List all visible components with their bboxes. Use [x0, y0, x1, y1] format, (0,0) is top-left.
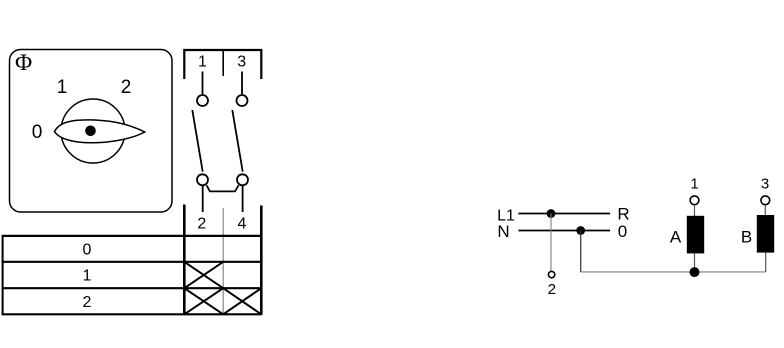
wire N down	[580, 231, 582, 272]
wire lead terminal 1	[202, 72, 204, 95]
bridge link contacts 2-4	[207, 185, 239, 191]
svg-text:0: 0	[32, 122, 43, 143]
svg-text:3: 3	[237, 54, 246, 71]
svg-text:1: 1	[83, 268, 92, 285]
svg-text:B: B	[741, 227, 752, 246]
svg-text:N: N	[497, 222, 509, 241]
svg-text:2: 2	[548, 281, 556, 298]
contact header bracket	[184, 50, 261, 79]
wire terminal 1 to load A	[694, 205, 696, 216]
svg-text:Φ: Φ	[15, 50, 32, 76]
svg-text:3: 3	[761, 175, 769, 192]
moving contact 2	[197, 174, 208, 185]
svg-text:R: R	[617, 205, 629, 224]
wire L1	[518, 213, 610, 215]
svg-text:0: 0	[83, 242, 92, 259]
switch blade pole 2	[232, 110, 242, 172]
junction node on N	[576, 226, 585, 235]
terminal 3 open circle	[761, 196, 770, 205]
X mark row 1 contact 2	[184, 262, 223, 288]
wire L1 to terminal 2	[550, 214, 552, 271]
svg-text:1: 1	[57, 77, 68, 98]
X mark row 2 contact 4	[223, 288, 261, 314]
terminal 1 open circle	[690, 196, 699, 205]
table left border	[2, 236, 4, 314]
table line top	[2, 235, 262, 237]
wire lead terminal 2	[202, 186, 204, 212]
svg-text:2: 2	[197, 216, 206, 233]
wire lead terminal 3	[241, 72, 243, 95]
wire load A to bus	[694, 253, 696, 272]
svg-text:A: A	[670, 227, 682, 246]
wire N	[518, 230, 610, 232]
switch blade pole 1	[192, 110, 202, 172]
wire bottom bus	[581, 271, 766, 273]
knob center dot	[85, 126, 96, 137]
junction node on L1	[547, 209, 556, 218]
wire load B to bus	[765, 253, 767, 272]
X mark row 2 contact 2	[184, 288, 223, 314]
knob handle (lens pointer)	[55, 120, 145, 143]
svg-text:2: 2	[121, 77, 132, 98]
terminal 2 open circle	[548, 271, 554, 277]
svg-text:1: 1	[690, 175, 698, 192]
load A body	[687, 216, 704, 254]
contact header middle tick	[222, 50, 224, 76]
table line 3	[2, 287, 262, 289]
wire lead terminal 4	[242, 186, 244, 212]
junction node bus/A	[690, 267, 700, 277]
column border right	[260, 206, 263, 315]
fixed contact 1	[197, 95, 208, 106]
svg-text:4: 4	[238, 216, 247, 233]
wire terminal 3 to load B	[764, 205, 766, 215]
svg-text:1: 1	[198, 54, 207, 71]
knob circle	[61, 99, 125, 163]
column separator (thin)	[222, 208, 224, 315]
table line 2	[2, 261, 262, 263]
svg-text:2: 2	[83, 294, 92, 311]
column border left	[183, 205, 186, 315]
svg-text:0: 0	[618, 222, 627, 241]
load B body	[757, 215, 774, 253]
switch front-plate S1 (rounded square)	[10, 50, 173, 213]
fixed contact 3	[237, 95, 248, 106]
moving contact 4	[237, 174, 248, 185]
table line bottom	[2, 313, 262, 315]
